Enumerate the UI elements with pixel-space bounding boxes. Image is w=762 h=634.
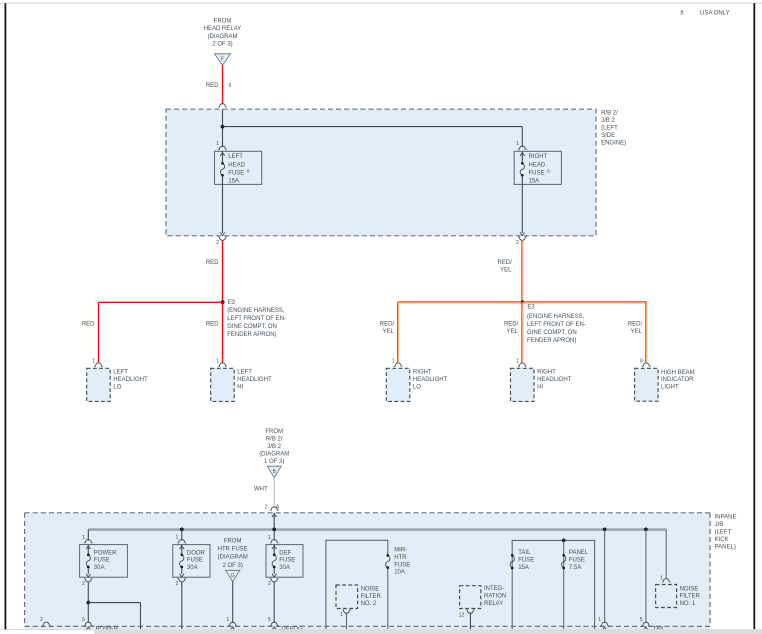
svg-text:1: 1 — [660, 575, 663, 581]
svg-text:5: 5 — [640, 617, 643, 623]
wire branch from power fuse — [88, 602, 140, 604]
svg-text:RIGHT: RIGHT — [537, 370, 556, 376]
connector pin 12 integration relay — [466, 610, 475, 614]
svg-text:FUSE: FUSE — [518, 557, 534, 563]
wire RED to left headlight hi — [222, 302, 224, 363]
svg-text:2 OF 3): 2 OF 3) — [223, 563, 243, 569]
svg-text:(ENGINE HARNESS,: (ENGINE HARNESS, — [527, 314, 585, 320]
frame left page border — [4, 3, 6, 630]
svg-text:HTR FUSE: HTR FUSE — [218, 547, 248, 553]
svg-text:1: 1 — [216, 141, 219, 147]
svg-text:(ENGINE HARNESS,: (ENGINE HARNESS, — [227, 308, 285, 314]
svg-text:HEAD: HEAD — [228, 162, 245, 168]
fuse PANEL FUSE 7.5A — [562, 555, 566, 568]
wire door fuse down — [181, 582, 183, 630]
svg-text:8: 8 — [640, 359, 643, 365]
svg-text:GINE COMPT, ON: GINE COMPT, ON — [227, 324, 277, 330]
svg-text:NOISE: NOISE — [361, 586, 380, 592]
entry arrow into inpane J/B — [272, 514, 276, 517]
svg-text:HI: HI — [237, 385, 243, 391]
svg-text:2: 2 — [40, 617, 43, 623]
svg-text:NO. 1: NO. 1 — [680, 601, 696, 607]
svg-text:FENDER APRON): FENDER APRON) — [527, 338, 576, 344]
svg-text:GINE COMPT, ON: GINE COMPT, ON — [527, 330, 577, 336]
fuse DOOR FUSE 30A — [173, 545, 210, 578]
wire RED/YEL branch horizontal right — [523, 301, 647, 303]
svg-text:FUSE: FUSE — [569, 557, 585, 563]
node bus exit 5 — [644, 528, 648, 532]
node E3 right — [520, 300, 524, 304]
svg-text:2: 2 — [268, 581, 271, 587]
wire htr fuse feed down — [232, 582, 234, 623]
fuse POWER FUSE 30A — [80, 545, 128, 578]
svg-text:1: 1 — [268, 535, 271, 541]
svg-text:2: 2 — [265, 504, 268, 510]
wire RED to node E3 left — [222, 240, 224, 302]
svg-text:HEADLIGHT: HEADLIGHT — [237, 377, 272, 383]
svg-text:2: 2 — [516, 240, 519, 246]
svg-text:5: 5 — [82, 617, 85, 623]
fuse DEF FUSE 30A — [266, 545, 303, 578]
junction block R/B 2 J/B 2 (dashed box) — [166, 109, 596, 236]
svg-text:FUSE: FUSE — [94, 558, 110, 564]
component NOISE FILTER NO. 1 — [656, 585, 677, 608]
node power branch — [86, 601, 90, 605]
frame right page border — [753, 3, 755, 630]
svg-text:E3: E3 — [228, 300, 236, 306]
svg-text:YEL: YEL — [500, 268, 512, 274]
svg-text:(DIAGRAM: (DIAGRAM — [208, 34, 238, 40]
wire bus to DEF fuse — [273, 529, 275, 540]
wire WHT to inpane J/B — [273, 478, 275, 508]
svg-text:LEFT: LEFT — [228, 154, 243, 160]
svg-text:LO: LO — [113, 385, 121, 391]
svg-text:WHT: WHT — [254, 486, 268, 492]
component INTEGRATION RELAY — [460, 586, 481, 609]
connector triangle G — [226, 570, 240, 581]
svg-text:1: 1 — [92, 359, 95, 365]
svg-text:RELAY: RELAY — [484, 601, 503, 607]
component RIGHT HEADLIGHT HI — [511, 368, 535, 401]
svg-text:15A: 15A — [518, 565, 529, 571]
svg-text:30A: 30A — [94, 565, 105, 571]
fuse TAIL FUSE 15A — [510, 555, 514, 568]
svg-text:15A: 15A — [529, 178, 540, 184]
svg-text:HEAD: HEAD — [529, 162, 546, 168]
svg-text:(DIAGRAM: (DIAGRAM — [218, 555, 248, 561]
wire right head fuse to R/B exit — [521, 184, 523, 233]
svg-text:J/B 2: J/B 2 — [601, 118, 615, 124]
svg-text:DOOR: DOOR — [187, 550, 206, 556]
wire RED/YEL branch horizontal left — [398, 301, 522, 303]
svg-text:FILTER: FILTER — [680, 594, 701, 600]
svg-text:1: 1 — [516, 359, 519, 365]
junction block INPANE J/B (dashed box) — [25, 513, 710, 630]
connector triangle B — [267, 466, 281, 477]
wire def fuse down — [273, 582, 275, 623]
svg-text:PANEL): PANEL) — [715, 544, 736, 550]
svg-text:7.5A: 7.5A — [569, 565, 581, 571]
svg-text:RED/: RED/ — [628, 322, 643, 328]
wire RED branch horizontal — [99, 301, 223, 303]
svg-text:12: 12 — [459, 612, 465, 618]
svg-text:1: 1 — [82, 535, 85, 541]
svg-text:1: 1 — [598, 617, 601, 623]
svg-text:NOISE: NOISE — [680, 586, 699, 592]
node bus exit 1 — [603, 528, 607, 532]
svg-text:E3: E3 — [527, 305, 535, 311]
svg-text:FROM: FROM — [265, 429, 283, 435]
svg-text:2: 2 — [82, 581, 85, 587]
svg-text:RIGHT: RIGHT — [413, 370, 432, 376]
wire RED relay to R/B — [222, 65, 224, 104]
component NOISE FILTER NO. 2 — [336, 585, 358, 609]
svg-text:HTR: HTR — [394, 555, 407, 561]
svg-text:6: 6 — [547, 168, 550, 173]
svg-text:YEL: YEL — [382, 329, 394, 335]
svg-text:J/B 2: J/B 2 — [267, 444, 281, 450]
svg-text:LEFT FRONT OF EN-: LEFT FRONT OF EN- — [227, 316, 286, 322]
svg-text:MIR-: MIR- — [394, 548, 407, 554]
connector pin 2 left exit — [218, 237, 227, 241]
wire entry to bus — [273, 513, 275, 530]
svg-text:TAIL: TAIL — [518, 550, 531, 556]
wire bus to exit 1 — [604, 529, 606, 623]
svg-text:SIDE: SIDE — [601, 133, 615, 139]
bottom edge line — [0, 629, 762, 631]
svg-text:6: 6 — [247, 168, 250, 173]
connector pin 2 right exit — [518, 237, 527, 241]
svg-text:FUSE: FUSE — [279, 558, 295, 564]
connector exit 1 right — [600, 622, 609, 626]
svg-text:LEFT: LEFT — [237, 370, 252, 376]
svg-text::USA ONLY: :USA ONLY — [698, 10, 729, 16]
component RIGHT HEADLIGHT LO — [386, 368, 410, 401]
frame top divider line — [0, 2, 762, 4]
bus wire inside J/B — [88, 528, 666, 531]
wire panel fuse — [563, 540, 565, 629]
svg-text:(LEFT: (LEFT — [601, 126, 618, 132]
svg-text:POWER: POWER — [94, 550, 117, 556]
svg-text:DEF: DEF — [279, 550, 291, 556]
svg-text:1: 1 — [176, 535, 179, 541]
node bus entry — [272, 528, 276, 532]
svg-text:FUSE: FUSE — [529, 170, 545, 176]
svg-text:1 OF 3): 1 OF 3) — [264, 459, 284, 465]
svg-text:RED/: RED/ — [380, 322, 395, 328]
wire RED/YEL to node E3 right — [521, 240, 523, 302]
wire bus to exit 5 TAIL — [645, 529, 647, 623]
component LEFT HEADLIGHT HI — [211, 368, 235, 401]
fuse RIGHT HEAD FUSE 15A — [514, 151, 561, 184]
svg-text:5: 5 — [268, 617, 271, 623]
svg-text:6: 6 — [229, 83, 232, 89]
svg-text:FROM: FROM — [214, 19, 232, 25]
svg-text:HI: HI — [537, 385, 543, 391]
connector at R/B entry — [218, 104, 227, 108]
connector exit 5 DEFOG — [270, 622, 279, 626]
svg-text:1: 1 — [392, 359, 395, 365]
wire mir-htr loop — [326, 540, 388, 629]
svg-text:RED/: RED/ — [504, 322, 519, 328]
fuse MIR-HTR FUSE 10A — [386, 555, 390, 567]
wire bus to POWER fuse — [87, 529, 89, 540]
svg-text:HEADLIGHT: HEADLIGHT — [537, 377, 572, 383]
wire bus to right head fuse — [223, 126, 523, 128]
wire RED/YEL to right headlight lo — [397, 302, 399, 364]
wire noise filter 2 down — [346, 612, 348, 629]
svg-text:YEL: YEL — [631, 329, 643, 335]
node junction top — [221, 125, 225, 129]
svg-text:LIGHT: LIGHT — [661, 384, 679, 390]
svg-text:RED: RED — [206, 322, 219, 328]
svg-text:1: 1 — [226, 617, 229, 623]
svg-text:RIGHT: RIGHT — [529, 154, 548, 160]
svg-text:LO: LO — [413, 385, 421, 391]
wire mir-htr fuse branch — [387, 540, 389, 554]
svg-text:2: 2 — [176, 581, 179, 587]
svg-text:1: 1 — [340, 612, 343, 618]
svg-text:B: B — [272, 469, 276, 475]
svg-text:30A: 30A — [187, 565, 198, 571]
svg-text:(DIAGRAM: (DIAGRAM — [259, 452, 289, 458]
svg-text:INDICATOR: INDICATOR — [661, 377, 694, 383]
svg-text:R/B 2/: R/B 2/ — [601, 110, 618, 116]
fuse LEFT HEAD FUSE 15A — [215, 151, 262, 184]
svg-text:LEFT FRONT OF EN-: LEFT FRONT OF EN- — [527, 322, 586, 328]
svg-text:FUSE: FUSE — [394, 562, 410, 568]
svg-text:(LEFT: (LEFT — [715, 529, 732, 535]
svg-text:J/B: J/B — [715, 522, 724, 528]
svg-text:INPANE: INPANE — [715, 514, 737, 520]
svg-text:HIGH BEAM: HIGH BEAM — [661, 370, 695, 376]
svg-text:G: G — [231, 573, 235, 579]
svg-text:FUSE: FUSE — [228, 170, 244, 176]
wire bus to DOOR fuse — [181, 529, 183, 540]
svg-text:RED: RED — [206, 83, 219, 89]
wire RED to left headlight lo — [98, 302, 100, 363]
wire RED/YEL to right headlight hi — [521, 302, 523, 363]
svg-text:HEADLIGHT: HEADLIGHT — [113, 377, 148, 383]
wire bus to noise filter 1 — [665, 529, 667, 578]
svg-text:RATION: RATION — [484, 593, 506, 599]
wire left head fuse to R/B exit — [222, 184, 224, 233]
connector exit 2 — [42, 622, 51, 626]
component HIGH BEAM INDICATOR LIGHT — [635, 368, 659, 401]
svg-text:FILTER: FILTER — [361, 594, 382, 600]
svg-text:LEFT: LEFT — [113, 370, 128, 376]
svg-text:F: F — [221, 57, 224, 63]
svg-text:HEADLIGHT: HEADLIGHT — [413, 377, 448, 383]
svg-text:PANEL: PANEL — [569, 550, 589, 556]
svg-text:FROM: FROM — [224, 539, 242, 545]
svg-text:10A: 10A — [394, 570, 405, 576]
svg-text:RED/: RED/ — [497, 260, 512, 266]
bottom gray bar — [94, 629, 762, 634]
node bus door fuse — [180, 528, 184, 532]
svg-text:KICK: KICK — [715, 537, 729, 543]
connector triangle F — [215, 54, 231, 65]
svg-text:R/B 2/: R/B 2/ — [266, 437, 283, 443]
svg-text:2 OF 3): 2 OF 3) — [212, 41, 232, 47]
wire integration relay down — [469, 612, 471, 629]
component LEFT HEADLIGHT LO — [87, 368, 111, 401]
connector pin 1 noise filter 2 — [342, 610, 351, 614]
connector exit 5 POWER — [84, 622, 93, 626]
svg-text:NO. 2: NO. 2 — [361, 601, 377, 607]
svg-text:2: 2 — [216, 240, 219, 246]
svg-text:FENDER APRON): FENDER APRON) — [227, 332, 276, 338]
connector exit 5 TAIL — [642, 622, 651, 626]
node E3 left — [220, 300, 224, 304]
wire inside R/B from entry — [222, 109, 224, 147]
wire tail-panel loop — [512, 540, 594, 629]
svg-text:1: 1 — [516, 141, 519, 147]
svg-text:30A: 30A — [279, 565, 290, 571]
svg-text:RED: RED — [206, 260, 219, 266]
wire power fuse down — [87, 582, 89, 623]
svg-text:YEL: YEL — [507, 329, 519, 335]
node panel fuse tap — [562, 539, 566, 543]
svg-text:15A: 15A — [228, 178, 239, 184]
svg-text:RED: RED — [82, 322, 95, 328]
wire RED/YEL to high beam indicator — [645, 302, 647, 364]
svg-text:FUSE: FUSE — [187, 558, 203, 564]
svg-text:INTEG-: INTEG- — [484, 586, 504, 592]
svg-text:ENGINE): ENGINE) — [601, 141, 626, 147]
svg-text:HEAD RELAY: HEAD RELAY — [204, 26, 242, 32]
svg-text:1: 1 — [216, 359, 219, 365]
connector exit 1 htr — [228, 622, 237, 626]
